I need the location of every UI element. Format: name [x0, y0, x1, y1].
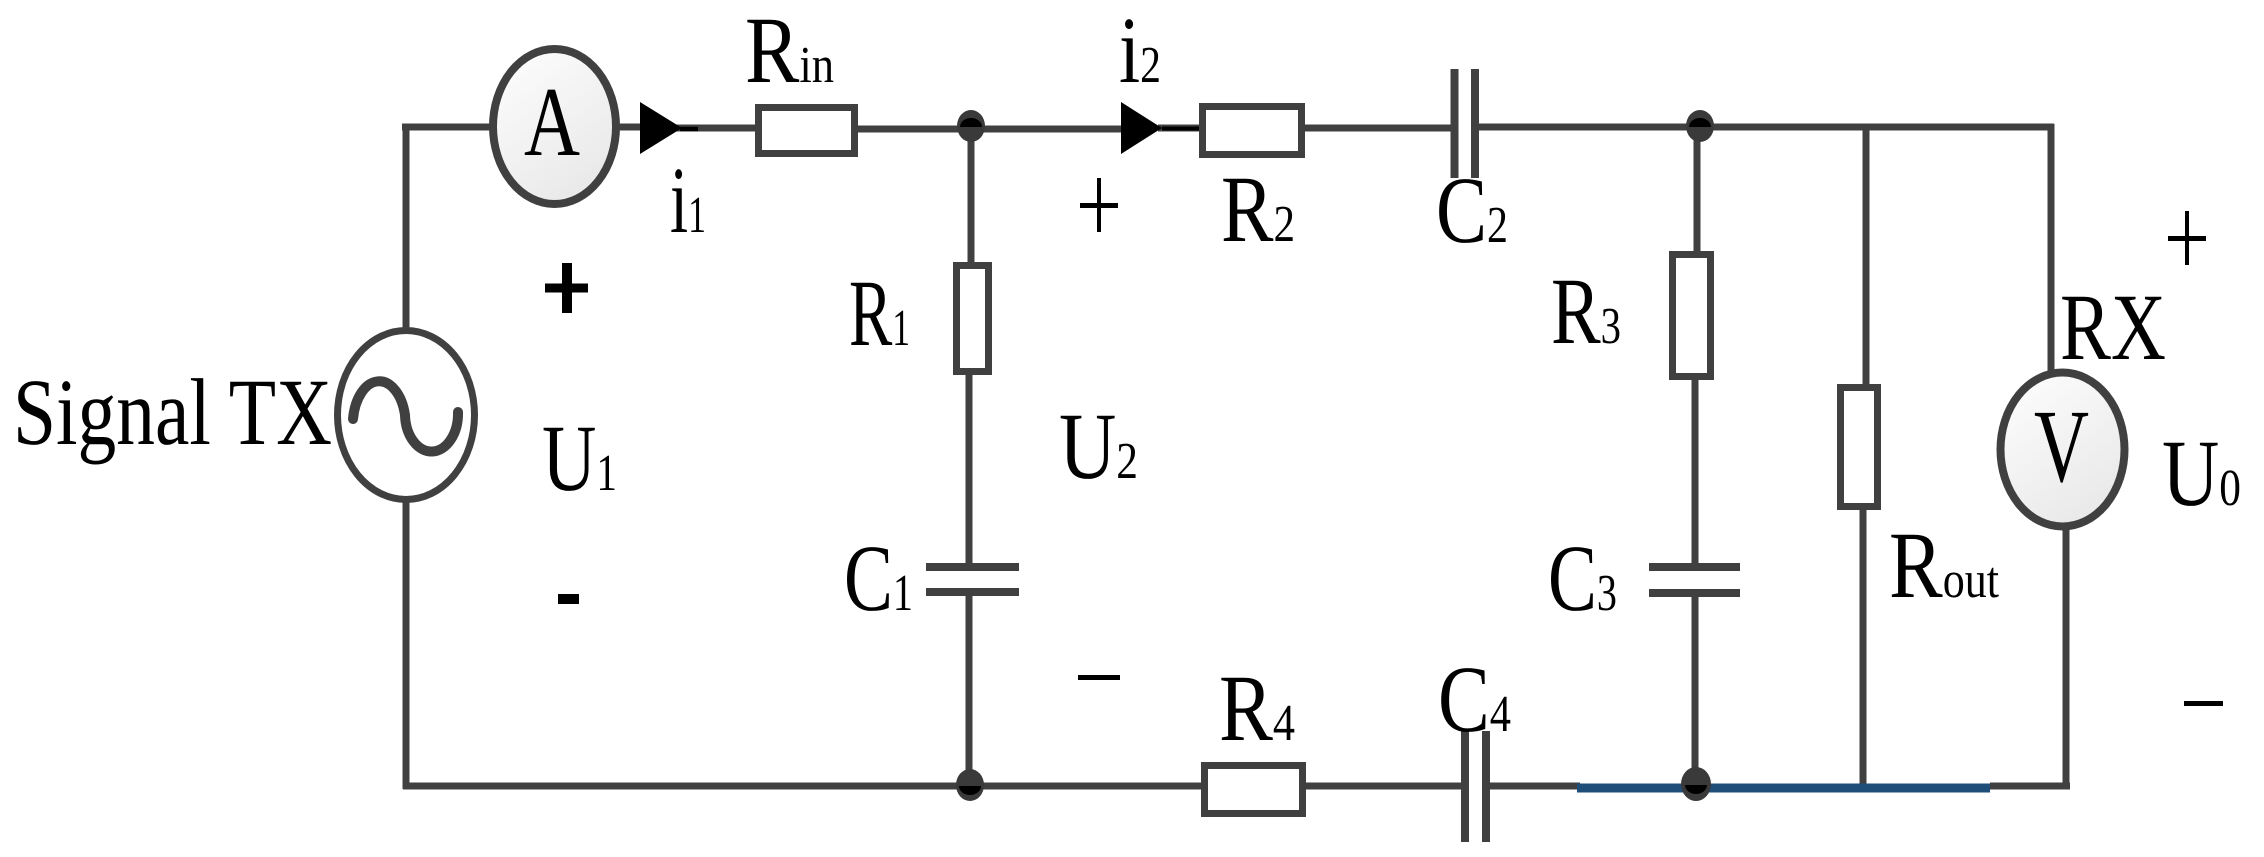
wire arrow i2 to R2: [1158, 125, 1202, 132]
wire bottom horizontal from R4 to C4: [1303, 783, 1463, 790]
svg-text:U2: U2: [1059, 393, 1138, 499]
svg-text:U1: U1: [542, 405, 617, 511]
resistor Rout: [1841, 388, 1878, 507]
wire R2 to C2: [1302, 125, 1451, 132]
minus sign of U1: [558, 594, 579, 604]
AC source sine wave: [353, 381, 458, 451]
wire arrow i1 to Rin: [676, 125, 758, 132]
svg-text:V: V: [2034, 389, 2089, 504]
resistor R1: [957, 266, 989, 372]
wire node A to arrow i2: [968, 126, 1128, 133]
svg-text:R3: R3: [1551, 258, 1621, 364]
capacitor C1: [926, 563, 1019, 571]
arrow i1: [640, 102, 682, 154]
wire ammeter to arrow i1: [616, 124, 648, 131]
wire bottom horizontal from blue segment to right corner: [1990, 783, 2070, 790]
resistor Rin: [759, 108, 855, 154]
wire left vertical from AC source down to bottom corner: [403, 500, 410, 789]
wire C3 down to bottom node D: [1692, 592, 1699, 786]
svg-text:R4: R4: [1219, 655, 1295, 761]
minus sign of U2: [1078, 675, 1120, 680]
ammeter A1: [493, 49, 616, 204]
svg-text:C1: C1: [844, 525, 913, 631]
wire top junction down to Rout: [1863, 127, 1870, 388]
wire node B down to R3: [1694, 127, 1701, 254]
svg-text:Signal TX: Signal TX: [13, 359, 332, 465]
plus sign of U2: [1080, 203, 1118, 208]
wire bottom blue highlighted segment: [1577, 784, 1990, 793]
node B (top right junction): [1686, 110, 1714, 142]
plus sign of U0: [2168, 236, 2206, 241]
wire right vertical from top corner down to voltmeter: [2048, 124, 2055, 372]
svg-text:R2: R2: [1221, 156, 1295, 262]
wire bottom horizontal from left corner to R4: [403, 783, 1204, 790]
svg-text:U0: U0: [2162, 420, 2241, 526]
svg-text:RX: RX: [2060, 274, 2166, 380]
svg-text:C4: C4: [1438, 646, 1511, 752]
wire Rin to node A: [855, 126, 968, 133]
svg-text:C2: C2: [1436, 157, 1508, 263]
svg-text:R1: R1: [849, 260, 910, 366]
arrow i2: [1121, 102, 1162, 154]
svg-text:i1: i1: [670, 147, 706, 253]
wire R1 down to C1: [966, 372, 973, 566]
svg-text:Rout: Rout: [1889, 512, 1999, 618]
capacitor C4: [1461, 731, 1469, 842]
wire voltmeter bottom down to bottom right corner: [2063, 527, 2070, 789]
wire Rout down to bottom wire: [1860, 507, 1867, 786]
capacitor C2: [1451, 69, 1459, 178]
resistor R3: [1673, 255, 1711, 377]
wire top left horizontal from source corner to ammeter: [402, 124, 492, 131]
wire R3 down to C3: [1692, 377, 1699, 566]
AC source Signal TX circle: [338, 331, 475, 500]
wire C1 down to bottom node C: [966, 592, 973, 786]
svg-text:i2: i2: [1119, 0, 1161, 103]
svg-text:C3: C3: [1548, 525, 1617, 631]
resistor R2: [1203, 107, 1302, 155]
node D (bottom right junction): [1681, 767, 1711, 801]
capacitor C3: [1649, 563, 1740, 571]
svg-text:Rin: Rin: [745, 0, 834, 103]
svg-text:A: A: [524, 68, 580, 177]
minus sign of U0: [2184, 701, 2223, 706]
wire bottom horizontal from C4 to blue segment: [1488, 783, 1580, 790]
voltmeter V1: [2001, 373, 2125, 527]
plus sign of U1: [545, 284, 588, 293]
wire left vertical from top corner down to AC source: [403, 124, 410, 330]
node C (bottom left junction): [956, 769, 984, 801]
node A (top left junction): [957, 110, 985, 142]
wire node A down to R1: [968, 129, 975, 265]
wire C2 to node B and onward to top right corner: [1479, 124, 2054, 131]
resistor R4: [1205, 766, 1303, 814]
